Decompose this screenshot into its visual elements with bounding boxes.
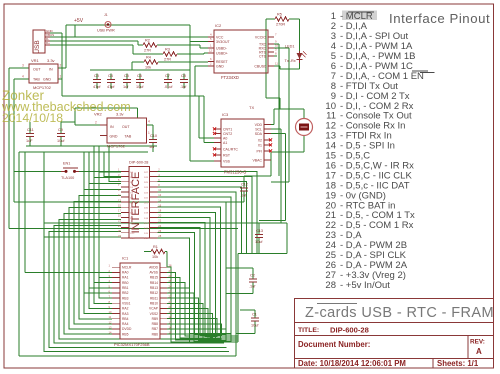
svg-text:C7: C7 xyxy=(165,74,170,78)
svg-text:RB8: RB8 xyxy=(152,322,159,326)
svg-text:Tx -Rx: Tx -Rx xyxy=(285,59,296,63)
svg-text:IC2: IC2 xyxy=(215,23,222,28)
svg-text:Interface Pinout: Interface Pinout xyxy=(389,11,490,26)
svg-text:10uf: 10uf xyxy=(251,324,259,328)
svg-text:VDD: VDD xyxy=(255,123,263,127)
svg-text:VCC: VCC xyxy=(216,35,224,39)
svg-text:27R: 27R xyxy=(164,57,171,61)
svg-text:C3: C3 xyxy=(94,74,99,78)
svg-text:.1uf: .1uf xyxy=(180,85,187,89)
svg-text:D+: D+ xyxy=(46,41,50,45)
svg-text:Document Number:: Document Number: xyxy=(298,340,370,349)
svg-text:RB9: RB9 xyxy=(152,317,159,321)
svg-text:MCLR: MCLR xyxy=(122,265,132,269)
svg-text:10uf: 10uf xyxy=(136,85,144,89)
svg-text:47pf: 47pf xyxy=(93,85,101,89)
svg-text:2: 2 xyxy=(60,64,62,68)
svg-text:CTS: CTS xyxy=(259,54,267,58)
svg-text:RB1: RB1 xyxy=(122,286,129,290)
svg-text:27R: 27R xyxy=(144,48,151,52)
svg-text:TX: TX xyxy=(249,105,254,110)
svg-text:RB6: RB6 xyxy=(152,332,159,336)
svg-text:MCP1702: MCP1702 xyxy=(107,144,126,149)
svg-text:RB7: RB7 xyxy=(152,327,159,331)
svg-text:VSS1: VSS1 xyxy=(122,301,131,305)
svg-text:TAB: TAB xyxy=(33,78,40,82)
svg-text:R4: R4 xyxy=(146,55,151,59)
svg-text:PIC32MX170F256B: PIC32MX170F256B xyxy=(114,342,150,347)
svg-text:IC3: IC3 xyxy=(222,112,229,117)
svg-text:Date: 10/18/2014 12:06:01 PM: Date: 10/18/2014 12:06:01 PM xyxy=(298,359,406,368)
svg-text:USB: USB xyxy=(34,40,41,53)
svg-text:C6: C6 xyxy=(137,74,142,78)
svg-text:VSS2: VSS2 xyxy=(150,312,159,316)
svg-text:A1: A1 xyxy=(223,141,227,145)
svg-text:C13: C13 xyxy=(256,229,263,233)
svg-text:10k: 10k xyxy=(152,255,158,259)
svg-text:RB15: RB15 xyxy=(150,276,158,280)
svg-text:TITLE:: TITLE: xyxy=(298,327,319,334)
svg-text:TLA100: TLA100 xyxy=(61,176,74,180)
svg-text:IC1: IC1 xyxy=(122,256,129,261)
svg-text:C4: C4 xyxy=(108,74,113,78)
svg-text:OUT: OUT xyxy=(122,125,130,129)
svg-text:C1: C1 xyxy=(252,313,257,317)
svg-text:RB14: RB14 xyxy=(150,281,158,285)
svg-text:3.3v: 3.3v xyxy=(47,58,55,63)
svg-text:RB12: RB12 xyxy=(150,291,158,295)
svg-text:R5: R5 xyxy=(277,12,282,16)
svg-text:FM31256-G: FM31256-G xyxy=(224,170,246,175)
svg-text:PFI: PFI xyxy=(257,149,262,153)
svg-text:10k: 10k xyxy=(145,65,151,69)
svg-text:VCAP: VCAP xyxy=(149,307,159,311)
svg-text:LED1: LED1 xyxy=(285,45,295,49)
svg-text:SDA: SDA xyxy=(255,132,263,136)
svg-text:RB13: RB13 xyxy=(150,286,158,290)
svg-text:RA4: RA4 xyxy=(122,322,129,326)
svg-text:IN: IN xyxy=(49,68,53,72)
svg-text:1: 1 xyxy=(60,75,62,79)
svg-text:GND: GND xyxy=(110,135,118,139)
svg-text:USBD+: USBD+ xyxy=(216,51,228,55)
svg-text:C2: C2 xyxy=(250,274,255,278)
svg-text:AVSS: AVSS xyxy=(149,271,158,275)
svg-text:VR1: VR1 xyxy=(31,58,40,63)
svg-text:DIP-600-28: DIP-600-28 xyxy=(129,161,148,165)
svg-text:USB PWR: USB PWR xyxy=(97,29,115,33)
svg-text:J1: J1 xyxy=(104,13,108,17)
svg-text:3V3OUT: 3V3OUT xyxy=(216,40,230,44)
svg-text:USBD-: USBD- xyxy=(216,46,228,50)
svg-text:10uf: 10uf xyxy=(255,240,263,244)
svg-text:Sheets: 1/1: Sheets: 1/1 xyxy=(437,359,479,368)
svg-text:R3: R3 xyxy=(165,47,170,51)
svg-text:C9: C9 xyxy=(58,128,63,132)
svg-text:3: 3 xyxy=(22,64,24,68)
svg-text:REV:: REV: xyxy=(470,339,485,346)
svg-text:RB4: RB4 xyxy=(122,317,129,321)
svg-text:1uF: 1uF xyxy=(26,139,33,143)
svg-text:12: 12 xyxy=(209,49,213,53)
svg-text:A0: A0 xyxy=(223,136,227,140)
svg-text:R1: R1 xyxy=(153,245,158,249)
svg-text:10uf: 10uf xyxy=(57,139,65,143)
svg-text:47pf: 47pf xyxy=(107,85,115,89)
svg-text:CBUS0: CBUS0 xyxy=(254,64,266,68)
svg-text:RB2: RB2 xyxy=(122,291,129,295)
svg-text:C11: C11 xyxy=(27,128,34,132)
svg-text:RB3: RB3 xyxy=(122,296,129,300)
svg-text:.01uf: .01uf xyxy=(164,85,173,89)
svg-text:C5: C5 xyxy=(124,74,129,78)
svg-text:X2: X2 xyxy=(258,138,262,142)
svg-text:270R: 270R xyxy=(276,22,285,26)
svg-text:11: 11 xyxy=(275,62,278,66)
svg-text:VSS: VSS xyxy=(223,159,231,163)
svg-text:RA2: RA2 xyxy=(122,307,129,311)
svg-text:GND: GND xyxy=(43,78,51,82)
svg-text:2014/10/18: 2014/10/18 xyxy=(2,111,63,125)
svg-text:RA1: RA1 xyxy=(122,276,129,280)
svg-text:RB0: RB0 xyxy=(122,281,129,285)
svg-text:A: A xyxy=(476,347,482,356)
svg-text:CNT1: CNT1 xyxy=(223,127,232,131)
svg-text:SCL: SCL xyxy=(255,127,262,131)
svg-text:4: 4 xyxy=(148,120,150,124)
svg-text:4: 4 xyxy=(22,75,24,79)
svg-text:X1: X1 xyxy=(258,143,262,147)
svg-text:.1uf: .1uf xyxy=(240,194,247,198)
svg-text:CNT2: CNT2 xyxy=(223,132,232,136)
svg-text:- +5v In/Out: - +5v In/Out xyxy=(340,280,390,291)
svg-text:VCCIO: VCCIO xyxy=(255,35,266,39)
svg-text:C8: C8 xyxy=(181,74,186,78)
svg-text:RA3: RA3 xyxy=(122,312,129,316)
svg-text:OUT: OUT xyxy=(33,68,41,72)
svg-text:C10: C10 xyxy=(150,134,157,138)
svg-text:RB10: RB10 xyxy=(150,301,158,305)
svg-text:TAB: TAB xyxy=(125,135,132,139)
svg-text:VBAC: VBAC xyxy=(252,158,262,162)
svg-text:DIP-600-28: DIP-600-28 xyxy=(330,325,369,334)
svg-text:RB5: RB5 xyxy=(122,332,129,336)
svg-text:CAL/RTC: CAL/RTC xyxy=(223,147,238,151)
svg-text:DVDD: DVDD xyxy=(122,327,132,331)
svg-text:RA0: RA0 xyxy=(122,271,129,275)
svg-text:RB11: RB11 xyxy=(150,296,158,300)
svg-text:AVDD: AVDD xyxy=(149,265,159,269)
svg-text:28: 28 xyxy=(325,280,336,291)
svg-text:EN1: EN1 xyxy=(63,162,70,166)
svg-text:IN: IN xyxy=(110,125,114,129)
svg-text:.1uf: .1uf xyxy=(249,285,256,289)
svg-text:RST: RST xyxy=(223,153,231,157)
svg-text:GND: GND xyxy=(216,64,224,68)
svg-text:+5V: +5V xyxy=(74,18,84,24)
svg-text:R2: R2 xyxy=(145,38,150,42)
svg-text:RESET: RESET xyxy=(216,60,229,64)
svg-text:2: 2 xyxy=(95,121,97,125)
svg-text:C12: C12 xyxy=(241,183,248,187)
svg-text:Z-cards USB - RTC - FRAM: Z-cards USB - RTC - FRAM xyxy=(305,305,494,321)
svg-text:FT234XD: FT234XD xyxy=(221,75,239,80)
